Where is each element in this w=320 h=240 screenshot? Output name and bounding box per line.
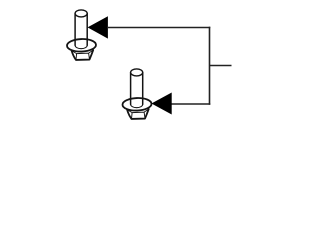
bolt B1 (upper hex flange bolt) bbox=[67, 10, 96, 60]
arrow A1 (points to upper bolt) bbox=[88, 17, 107, 38]
wire: lower leader horizontal bbox=[171, 103, 211, 105]
bolt B2 (lower hex flange bolt) bbox=[122, 69, 151, 119]
wire: upper leader horizontal bbox=[107, 27, 210, 29]
arrow A2 (points to lower bolt) bbox=[152, 93, 171, 114]
wire: vertical bus bbox=[209, 27, 211, 105]
wire: middle tick to label bbox=[210, 65, 232, 67]
